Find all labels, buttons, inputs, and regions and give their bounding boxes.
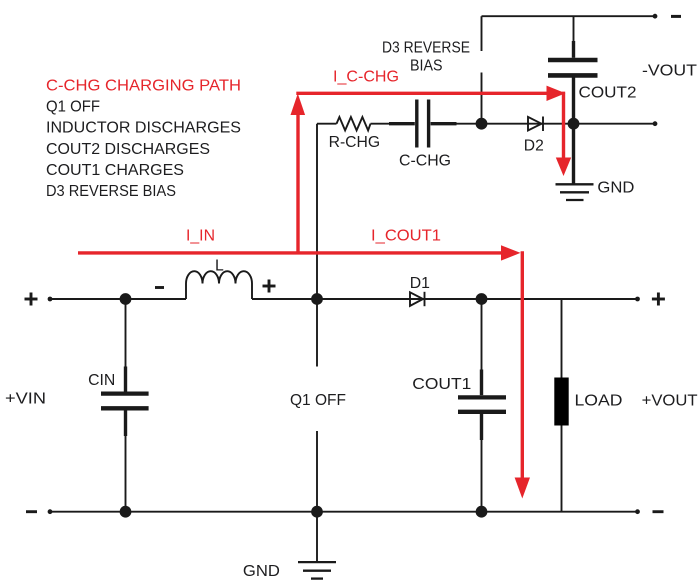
label - (output bottom terminal) (653, 510, 664, 513)
wire: bottom rail (50, 511, 638, 513)
capacitor C-CHG plates (417, 100, 429, 148)
node: junction under COUT2 (568, 118, 580, 130)
wire: Q1 branch upper (316, 299, 318, 367)
svg-text:Q1 OFF: Q1 OFF (46, 98, 100, 115)
wire: D3 branch vertical (upper segment) (481, 16, 483, 51)
svg-text:C-CHG: C-CHG (399, 153, 451, 170)
node: endpoint dot input top (48, 297, 53, 302)
svg-text:D3 REVERSE BIAS: D3 REVERSE BIAS (46, 183, 176, 200)
wire: Q1 branch lower (316, 431, 318, 512)
svg-text:I_IN: I_IN (186, 227, 215, 244)
ground (bottom) (298, 512, 336, 579)
node: junction at D3 branch (476, 118, 488, 130)
label + (input top terminal) (25, 293, 38, 306)
svg-text:BIAS: BIAS (410, 58, 443, 75)
svg-text:C-CHG CHARGING PATH: C-CHG CHARGING PATH (46, 77, 241, 94)
capacitor COUT2 top lead (573, 16, 575, 58)
label + (inductor right polarity) (263, 280, 276, 293)
svg-text:GND: GND (597, 180, 634, 197)
label + (output top terminal) (652, 293, 665, 306)
wire: top rail right of inductor (252, 298, 638, 300)
ground (top, under COUT2 node) (556, 124, 594, 200)
wire: R-CHG row left stub (317, 123, 337, 125)
diode D1 (410, 292, 425, 306)
svg-text:COUT2 DISCHARGES: COUT2 DISCHARGES (46, 141, 210, 158)
svg-text:+VIN: +VIN (5, 391, 46, 408)
red current path I_C-CHG (291, 86, 572, 253)
wire: top rail left segment (50, 298, 186, 300)
node: junction CIN bottom (120, 506, 132, 518)
svg-text:CIN: CIN (88, 372, 115, 389)
label - (inductor left polarity) (155, 286, 164, 289)
svg-text:GND: GND (243, 563, 280, 580)
svg-text:I_COUT1: I_COUT1 (371, 227, 441, 244)
capacitor COUT2 bottom lead (572, 78, 575, 124)
capacitor C-CHG lead left (thick) (389, 122, 415, 125)
node: junction COUT1 bottom (476, 506, 488, 518)
wire: top rail to -VOUT (482, 15, 656, 17)
label minus at -VOUT terminal (671, 15, 681, 18)
node: endpoint dot top right (653, 14, 658, 19)
inductor L (186, 271, 252, 299)
svg-text:D2: D2 (524, 137, 544, 154)
svg-text:I_C-CHG: I_C-CHG (333, 69, 399, 86)
node: junction CIN top (120, 293, 132, 305)
diode D2 (528, 117, 543, 132)
svg-text:D3 REVERSE: D3 REVERSE (382, 40, 470, 57)
svg-text:COUT1: COUT1 (412, 376, 471, 393)
capacitor CIN (101, 299, 149, 512)
wire: C-CHG to D2 row (457, 123, 656, 125)
svg-text:COUT2: COUT2 (579, 85, 637, 102)
svg-text:R-CHG: R-CHG (329, 134, 381, 151)
node: endpoint dot input bottom (48, 509, 53, 514)
node: endpoint dot output bottom (635, 509, 640, 514)
wire: R-CHG to C-CHG (371, 123, 391, 125)
svg-text:INDUCTOR DISCHARGES: INDUCTOR DISCHARGES (46, 120, 241, 137)
red current path I_IN / I_COUT1 (78, 245, 530, 498)
node: junction GND bottom (311, 506, 323, 518)
wire: D3 branch vertical (lower segment) (481, 73, 483, 124)
resistor R-CHG (337, 117, 371, 130)
node: junction COUT1 top (476, 293, 488, 305)
svg-text:COUT1 CHARGES: COUT1 CHARGES (46, 162, 184, 179)
node: endpoint dot right of D2 row (653, 121, 658, 126)
svg-text:D1: D1 (410, 275, 430, 292)
svg-text:Q1 OFF: Q1 OFF (290, 392, 346, 409)
wire: vertical from R-CHG down to main rail node (316, 124, 318, 299)
svg-text:-VOUT: -VOUT (642, 62, 697, 79)
node: junction Q1 top (311, 293, 323, 305)
capacitor COUT2 plates (548, 60, 598, 75)
svg-text:L: L (215, 258, 224, 275)
svg-text:+VOUT: +VOUT (642, 393, 698, 410)
resistor LOAD (554, 299, 568, 512)
svg-text:LOAD: LOAD (575, 393, 623, 410)
capacitor COUT1 (458, 299, 506, 512)
node: endpoint dot output top (635, 297, 640, 302)
label - (input bottom terminal) (26, 510, 37, 513)
capacitor C-CHG lead right (thick) (431, 122, 457, 125)
label D3 REVERSE BIAS (two lines) (382, 40, 470, 75)
